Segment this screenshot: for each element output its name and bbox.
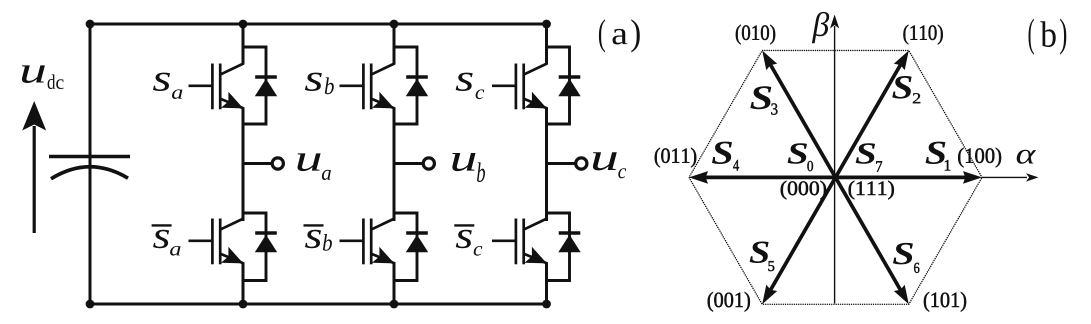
terminal: phase-b output node: [423, 158, 434, 169]
diode D_c2 (freewheeling, antiparallel): [558, 233, 580, 252]
wire: phase-c leg (top rail to upper collector): [545, 24, 548, 65]
vector S_2 (110): [836, 62, 903, 177]
vector S_6 (101): [836, 177, 903, 292]
label S1 vector name: [926, 142, 951, 171]
label s-bar_c (lower switch): [454, 225, 482, 255]
label s_a (upper switch): [153, 73, 182, 99]
transistor s_c (upper IGBT, phase c): [492, 64, 547, 110]
axis beta (vertical): [830, 15, 839, 304]
node label (101): [924, 292, 966, 312]
wire: phase-b leg (lower emitter to bottom rail): [393, 262, 396, 304]
arrow: u_dc voltage reference direction: [22, 101, 46, 233]
junction dot: top rail / leg b: [390, 20, 399, 29]
label (a) figure tag: [599, 19, 640, 52]
label S4 vector name: [712, 142, 739, 171]
label u_dc: [22, 65, 64, 89]
node label (011): [655, 148, 696, 168]
wire: left DC-link vertical (lower segment): [89, 168, 92, 304]
vector S_1 (100): [836, 176, 969, 180]
junction dot: DC-link top-left: [86, 20, 95, 29]
junction dot: top rail / leg c: [542, 20, 551, 29]
wire: branch of freewheeling diode D_a1: [243, 47, 266, 124]
label u_a (phase output voltage): [297, 153, 330, 180]
vector S_3 (010): [769, 62, 836, 177]
wire: branch of freewheeling diode D_b1: [394, 47, 417, 124]
diode D_a2 (freewheeling, antiparallel): [255, 233, 277, 252]
wire: phase-a leg (upper emitter to lower collector): [242, 107, 245, 221]
wire: phase-b leg (upper emitter to lower collector): [393, 107, 396, 221]
node label (100): [958, 148, 1001, 168]
label S2 vector name: [892, 76, 920, 103]
terminal: phase-c output node: [576, 158, 587, 169]
diode D_b1 (freewheeling, antiparallel): [406, 77, 428, 96]
node label (000): [781, 181, 826, 200]
label S0 vector name: [788, 143, 813, 171]
wire: phase-a leg (lower emitter to bottom rail): [242, 262, 245, 304]
wire: bottom DC bus rail: [90, 303, 547, 306]
diode D_c1 (freewheeling, antiparallel): [558, 77, 580, 96]
wire: phase-b leg (top rail to upper collector): [393, 24, 396, 65]
transistor s_a (upper IGBT, phase a): [189, 64, 244, 110]
wire: branch of freewheeling diode D_c1: [547, 47, 570, 124]
node label (111): [849, 181, 894, 200]
wire: top DC bus rail: [90, 23, 547, 26]
label S6 vector name: [893, 243, 919, 273]
wire: phase-c leg (upper emitter to lower collector): [545, 107, 548, 221]
wire: phase-c leg (lower emitter to bottom rail): [545, 262, 548, 304]
hexagon boundary (dotted): [689, 51, 982, 305]
transistor s-bar_b (lower IGBT, phase b): [340, 219, 395, 265]
junction dot: top rail / leg a: [239, 20, 248, 29]
wire: phase-a leg (top rail to upper collector): [242, 24, 245, 65]
label S7 vector name: [856, 143, 883, 172]
transistor s-bar_a (lower IGBT, phase a): [189, 219, 244, 265]
junction dot: bottom rail / leg b: [390, 300, 399, 309]
label s_b (upper switch): [305, 73, 334, 95]
label S3 vector name: [750, 86, 777, 114]
wire: left DC-link vertical (upper segment): [89, 24, 92, 167]
label u_c (phase output voltage): [593, 152, 626, 178]
wire: branch of freewheeling diode D_b2: [394, 213, 417, 281]
junction dot: DC-link bottom-left: [86, 300, 95, 309]
label S5 vector name: [750, 242, 775, 272]
label (b) figure tag: [1029, 18, 1067, 54]
junction dot: bottom rail / leg a: [239, 300, 248, 309]
vector S_5 (001): [769, 177, 836, 292]
terminal: phase-a output node: [272, 158, 283, 169]
node label (001): [708, 292, 750, 312]
wire: phase-c output stub: [547, 162, 575, 165]
wire: phase-a output stub: [243, 162, 271, 165]
label u_b (phase output voltage): [452, 153, 485, 182]
transistor s_b (upper IGBT, phase b): [340, 64, 395, 110]
label s-bar_b (lower switch): [304, 225, 332, 250]
node label (110): [903, 25, 942, 45]
diode D_b2 (freewheeling, antiparallel): [406, 233, 428, 252]
wire: branch of freewheeling diode D_a2: [243, 213, 266, 281]
label alpha: [1017, 150, 1036, 164]
diode D_a1 (freewheeling, antiparallel): [255, 77, 277, 96]
axis alpha (horizontal): [982, 173, 1039, 181]
capacitor C_dc (DC-link capacitor): [49, 157, 130, 179]
node label (010): [736, 25, 775, 45]
wire: phase-b output stub: [394, 162, 422, 165]
transistor s-bar_c (lower IGBT, phase c): [492, 219, 547, 265]
wire: branch of freewheeling diode D_c2: [547, 213, 570, 281]
label beta: [812, 12, 829, 43]
label s-bar_a (lower switch): [152, 225, 181, 255]
vector S_4 (011): [702, 176, 835, 180]
label s_c (upper switch): [456, 73, 485, 99]
junction dot: bottom rail / leg c: [542, 300, 551, 309]
